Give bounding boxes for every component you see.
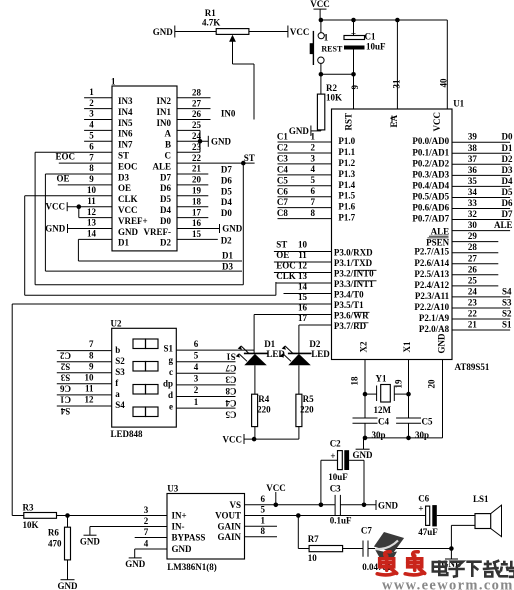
U1 pin 20 wire GND (442, 360, 444, 438)
U1 pin 34 wire (452, 196, 510, 198)
U1 pin 12 wire EOC (274, 272, 332, 274)
power label GND at R1 (174, 26, 176, 38)
svg-text:D0: D0 (502, 132, 513, 142)
svg-text:6: 6 (194, 339, 199, 349)
svg-text:S3: S3 (60, 373, 70, 383)
U1 pin 27 wire (452, 263, 498, 265)
svg-text:VCC: VCC (310, 0, 330, 9)
wire C6 to speaker (437, 515, 475, 517)
svg-text:C6: C6 (277, 186, 288, 196)
svg-text:LED: LED (311, 349, 330, 359)
wire X1 down to C5 (408, 394, 410, 418)
svg-text:ST: ST (118, 151, 129, 161)
U1 pin 8 wire (278, 218, 332, 220)
svg-text:14: 14 (298, 282, 308, 292)
svg-text:3: 3 (194, 374, 199, 384)
LED D1 arrows (241, 346, 249, 354)
svg-text:D1: D1 (222, 251, 233, 261)
svg-text:10: 10 (298, 240, 308, 250)
svg-text:P2.5/A13: P2.5/A13 (414, 269, 449, 279)
ADC pin 4 wire (84, 129, 112, 131)
svg-text:S3: S3 (502, 297, 512, 307)
U1 pin 14 wire (284, 293, 332, 295)
ADC pin 10 wire CLK (25, 195, 112, 197)
svg-text:IN4: IN4 (118, 107, 133, 117)
svg-text:6: 6 (89, 141, 94, 151)
U3 pin 4 wire GND (135, 548, 167, 550)
svg-text:e: e (169, 402, 173, 412)
svg-text:11: 11 (85, 384, 94, 394)
svg-text:8: 8 (311, 208, 316, 218)
ADC pin 19 wire D5 (177, 195, 208, 197)
svg-text:P2.6/A14: P2.6/A14 (414, 258, 449, 268)
svg-text:12: 12 (85, 395, 95, 405)
U3 pin 8 wire GAIN (245, 536, 278, 538)
svg-text:20: 20 (427, 379, 437, 389)
svg-text:5: 5 (311, 175, 316, 185)
svg-text:A: A (165, 129, 172, 139)
wire CLK net bottom run (25, 294, 276, 296)
node reset at S1 (319, 72, 324, 77)
svg-text:C2: C2 (277, 143, 288, 153)
wire X2 down to C4 (364, 394, 366, 418)
svg-text:D4: D4 (160, 205, 171, 215)
svg-text:dp: dp (163, 378, 173, 388)
svg-text:12M: 12M (374, 405, 392, 415)
U2 pin wire (57, 394, 112, 396)
svg-text:www.eeworm.com: www.eeworm.com (382, 578, 514, 590)
svg-text:D7: D7 (502, 209, 513, 219)
svg-text:5: 5 (261, 505, 266, 515)
U1 pin 13 wire CLK (276, 282, 332, 284)
wire R2 bottom to GND (320, 130, 322, 131)
svg-text:C1: C1 (365, 31, 376, 41)
svg-text:GND: GND (353, 450, 374, 460)
U3 pin 1 wire GAIN (245, 525, 278, 527)
microcontroller U1 AT89S51 body (332, 109, 453, 360)
svg-text:S4: S4 (502, 286, 512, 296)
ADC pin 28 wire (177, 97, 211, 99)
ground symbol at IN- (84, 534, 97, 536)
wire R6 to ground (67, 560, 69, 580)
svg-text:21: 21 (192, 164, 202, 174)
svg-text:1: 1 (111, 77, 116, 87)
svg-text:38: 38 (468, 143, 478, 153)
U1 pin 6 wire (278, 196, 332, 198)
svg-text:P2.7/A15: P2.7/A15 (414, 247, 449, 257)
svg-text:CLK: CLK (276, 271, 296, 281)
node VCC at VS (274, 503, 279, 508)
svg-text:10: 10 (85, 372, 95, 382)
svg-text:OE: OE (57, 174, 70, 184)
svg-text:220: 220 (300, 404, 314, 414)
power label VCC at LED bus (243, 434, 245, 444)
svg-text:GND: GND (118, 227, 139, 237)
U1 pin 21 wire S1 (452, 329, 510, 331)
svg-text:32: 32 (468, 209, 478, 219)
svg-text:4: 4 (311, 164, 316, 174)
svg-text:IN-: IN- (172, 522, 185, 532)
svg-text:C5: C5 (422, 417, 433, 427)
svg-text:Y1: Y1 (376, 374, 387, 384)
svg-text:12: 12 (87, 207, 97, 217)
svg-text:5: 5 (89, 131, 94, 141)
wire pin4 to ground (134, 549, 136, 558)
svg-text:VREF+: VREF+ (118, 216, 148, 226)
wire RST to U1 pin9 (353, 74, 355, 109)
svg-text:D1: D1 (118, 238, 129, 248)
U2 pin wire (57, 372, 112, 374)
wire from R1 wiper to IN0 (253, 64, 255, 120)
svg-text:GND: GND (125, 559, 146, 569)
svg-text:C4: C4 (225, 398, 236, 408)
svg-text:D1: D1 (264, 339, 275, 349)
svg-text:22: 22 (468, 309, 478, 319)
ground symbol at U3 pin4 (129, 557, 142, 559)
U1 pin 15 wire to R3 (audio line) (12, 303, 331, 305)
wire C4 bottom (364, 423, 366, 438)
U2 right pin 1 wire (176, 407, 235, 409)
svg-text:22: 22 (192, 153, 202, 163)
svg-text:6: 6 (261, 494, 266, 504)
svg-text:12: 12 (298, 261, 308, 271)
svg-text:C7: C7 (361, 526, 372, 536)
svg-text:20: 20 (192, 175, 202, 185)
svg-text:10K: 10K (326, 93, 342, 103)
svg-text:10uF: 10uF (328, 472, 348, 482)
wire IN- to ground (89, 527, 91, 536)
wire R1 right lead (249, 31, 288, 33)
svg-text:24: 24 (468, 286, 478, 296)
svg-text:1: 1 (261, 516, 266, 526)
svg-text:IN0: IN0 (221, 108, 236, 118)
svg-text:34: 34 (468, 187, 478, 197)
node at ABC tie (198, 139, 203, 144)
svg-text:23: 23 (468, 297, 478, 307)
svg-text:IN6: IN6 (118, 129, 133, 139)
svg-text:GAIN: GAIN (217, 532, 241, 542)
svg-text:C6: C6 (418, 494, 429, 504)
ADC pin 23 wire (177, 151, 200, 153)
U2 right pin 5 wire (176, 361, 235, 363)
svg-text:AT89S51: AT89S51 (455, 362, 490, 372)
wire VCC top rail (320, 19, 447, 21)
svg-text:26: 26 (468, 264, 478, 274)
svg-text:RST: RST (344, 113, 354, 131)
wire R5 to VCC bus (298, 427, 300, 440)
svg-text:VCC: VCC (266, 483, 286, 493)
node VCC rail at S1 (319, 18, 324, 23)
svg-text:GND: GND (211, 136, 232, 146)
svg-text:VOUT: VOUT (215, 511, 241, 521)
node VOUT to R7 (296, 513, 301, 518)
svg-text:11: 11 (298, 250, 307, 260)
ADC pin 16 wire (177, 228, 220, 230)
ADC pin 20 wire D6 (177, 184, 208, 186)
svg-text:VCC: VCC (432, 112, 442, 132)
svg-text:D6: D6 (502, 198, 513, 208)
svg-text:D2: D2 (160, 238, 171, 248)
wire D1 net bottom run (78, 260, 242, 262)
svg-text:+: + (418, 504, 423, 514)
svg-text:10uF: 10uF (366, 41, 386, 51)
U3 pin 6 wire VS (245, 504, 336, 506)
svg-text:2: 2 (194, 385, 199, 395)
svg-text:21: 21 (468, 320, 478, 330)
svg-text:C2: C2 (60, 350, 71, 360)
svg-text:P0.3/AD3: P0.3/AD3 (412, 169, 449, 179)
svg-text:30p: 30p (415, 430, 429, 440)
ADC pin 5 wire (84, 140, 112, 142)
wire C7 to speaker return (368, 548, 451, 550)
svg-text:EA: EA (389, 114, 399, 127)
ADC pin 9 wire OE (58, 184, 112, 186)
svg-text:GND: GND (80, 537, 101, 547)
svg-text:C5: C5 (277, 175, 288, 185)
svg-text:9: 9 (89, 174, 94, 184)
svg-text:EOC: EOC (118, 161, 138, 171)
wire D2 LED drop (298, 325, 300, 353)
node VCC rail at C1 (351, 18, 356, 23)
ADC pin 24 wire (177, 140, 208, 142)
power label GND at R2 (310, 126, 312, 137)
U1 pin 26 wire (452, 274, 498, 276)
U1 pin 17 wire to LED D2 (299, 324, 332, 326)
amplifier U3 LM386 body (167, 494, 245, 560)
svg-text:C8: C8 (277, 208, 288, 218)
svg-text:B: B (165, 140, 171, 150)
svg-text:VS: VS (229, 500, 241, 510)
node C2 left (319, 503, 324, 508)
wire VCC to U1 pin40 (446, 20, 448, 109)
U1 pin 11 wire OE (274, 261, 332, 263)
svg-text:15: 15 (192, 229, 202, 239)
svg-text:IN+: IN+ (172, 511, 187, 521)
svg-text:C5: C5 (225, 409, 236, 419)
U1 pin 5 wire (278, 185, 332, 187)
svg-text:OE: OE (118, 183, 131, 193)
svg-text:R4: R4 (258, 394, 269, 404)
svg-text:C8: C8 (225, 386, 236, 396)
resistor R5 220 (296, 394, 302, 426)
capacitor C5 30p (396, 417, 421, 419)
wire left rail down to R3 (11, 304, 13, 516)
svg-text:BYPASS: BYPASS (172, 533, 206, 543)
U1 right pins 39-32 wires D0-D7 (452, 141, 510, 143)
svg-text:LS1: LS1 (473, 494, 489, 504)
wire crystal ground bus (364, 437, 443, 439)
ADC pin 7 wire EOC (59, 162, 112, 164)
svg-text:19: 19 (192, 186, 202, 196)
svg-text:+: + (330, 451, 335, 461)
svg-text:7: 7 (89, 339, 94, 349)
svg-text:IN5: IN5 (118, 118, 133, 128)
svg-text:IN3: IN3 (118, 96, 133, 106)
node C4 gnd (363, 436, 368, 441)
wire C5 bottom (408, 423, 410, 438)
svg-text:GND: GND (45, 224, 66, 234)
U1 pin 7 wire (278, 207, 332, 209)
svg-text:39: 39 (468, 132, 478, 142)
U1 pin 36 wire (452, 174, 510, 176)
U1 pin 32 wire (452, 219, 510, 221)
ground symbol at crystal (363, 438, 365, 449)
wire VOUT drop to R7 (297, 516, 299, 549)
svg-text:ALE: ALE (152, 161, 171, 171)
svg-text:36: 36 (468, 165, 478, 175)
resistor R7 10 (298, 548, 309, 550)
svg-text:D2: D2 (309, 339, 320, 349)
svg-text:D1: D1 (502, 143, 513, 153)
svg-text:10: 10 (87, 185, 97, 195)
node speaker return (449, 546, 454, 551)
svg-text:D0: D0 (160, 216, 171, 226)
resistor R3 10K (12, 515, 24, 517)
svg-text:P0.1/AD1: P0.1/AD1 (412, 147, 449, 157)
wire C1 top (353, 20, 355, 36)
svg-text:3: 3 (144, 505, 149, 515)
svg-text:P0.5/AD5: P0.5/AD5 (412, 191, 449, 201)
svg-text:ST: ST (276, 240, 287, 250)
svg-text:30: 30 (468, 220, 478, 230)
svg-text:U3: U3 (167, 484, 178, 494)
svg-text:P0.0/AD0: P0.0/AD0 (412, 136, 449, 146)
svg-text:P1.2: P1.2 (338, 158, 355, 168)
ADC pin 26 wire IN0 (177, 119, 211, 121)
svg-text:2: 2 (89, 98, 94, 108)
svg-text:P0.2/AD2: P0.2/AD2 (412, 158, 449, 168)
svg-text:P0.7/AD7: P0.7/AD7 (412, 214, 449, 224)
wire speaker return horizontal (451, 524, 475, 526)
svg-text:D3: D3 (222, 262, 233, 272)
power label VCC at R1 (287, 26, 289, 38)
U1 pin 29 wire (452, 241, 498, 243)
svg-text:GND: GND (437, 333, 447, 354)
U1 pin 24 wire S4 (452, 296, 510, 298)
wire R1 left lead (175, 31, 216, 33)
resistor R1 4.7K potentiometer (216, 29, 249, 35)
svg-text:REST: REST (321, 44, 343, 53)
svg-text:C1: C1 (277, 132, 288, 142)
svg-text:P1.4: P1.4 (338, 180, 355, 190)
svg-text:5: 5 (194, 350, 199, 360)
svg-text:D6: D6 (221, 175, 232, 185)
svg-text:P0.6/AD6: P0.6/AD6 (412, 203, 449, 213)
svg-text:25: 25 (192, 120, 202, 130)
svg-text:C1: C1 (60, 395, 71, 405)
svg-text:19: 19 (394, 379, 404, 389)
svg-text:11: 11 (87, 196, 96, 206)
U2 digit segments (133, 339, 146, 349)
svg-text:C: C (165, 151, 172, 161)
wire R4 to VCC bus (254, 427, 256, 440)
svg-text:D7: D7 (160, 172, 171, 182)
svg-text:3: 3 (311, 153, 316, 163)
svg-text:P2.3/A11: P2.3/A11 (415, 291, 450, 301)
ADC pin 3 wire (84, 119, 112, 121)
svg-text:6: 6 (311, 186, 316, 196)
svg-text:P2.4/A12: P2.4/A12 (414, 280, 449, 290)
svg-text:S2: S2 (115, 356, 125, 366)
svg-text:S3: S3 (115, 367, 125, 377)
svg-text:18: 18 (350, 376, 360, 386)
svg-text:c: c (169, 367, 173, 377)
svg-text:D2: D2 (221, 236, 232, 246)
svg-text:R6: R6 (48, 527, 59, 537)
U2 pin wire (57, 383, 112, 385)
node X2 (363, 392, 368, 397)
svg-text:8: 8 (89, 350, 94, 360)
svg-text:GND: GND (58, 581, 79, 590)
svg-text:d: d (168, 390, 173, 400)
wire wiper elbow (233, 63, 255, 65)
svg-text:25: 25 (468, 275, 478, 285)
svg-text:ST: ST (244, 153, 255, 163)
svg-text:GAIN: GAIN (217, 521, 241, 531)
U1 pin 28 wire (452, 252, 498, 254)
ADC pin 21 wire D7 (177, 173, 208, 175)
svg-text:U1: U1 (453, 99, 464, 109)
svg-text:4: 4 (194, 362, 199, 372)
svg-text:17: 17 (192, 207, 202, 217)
svg-text:13: 13 (87, 218, 97, 228)
svg-text:EOC: EOC (276, 261, 296, 271)
node ST junction (241, 161, 246, 166)
svg-text:R1: R1 (205, 8, 216, 18)
svg-text:X2: X2 (359, 341, 369, 352)
svg-text:27: 27 (192, 98, 202, 108)
power label VCC at ADC pin11 (66, 202, 68, 211)
R1 wiper arrow (229, 35, 236, 42)
watermark gray site name dianzi xiazaizhan (433, 560, 514, 577)
wire ST rail down (242, 163, 244, 285)
svg-text:D4: D4 (502, 176, 513, 186)
svg-text:LM386N1(8): LM386N1(8) (167, 562, 217, 572)
wire LED VCC bus (244, 438, 299, 440)
svg-text:VCC: VCC (223, 434, 243, 444)
svg-text:220: 220 (257, 404, 271, 414)
wire D1 net vertical (77, 239, 79, 261)
svg-text:S2: S2 (60, 362, 70, 372)
svg-text:15: 15 (298, 292, 308, 302)
U2 pin wire (57, 405, 112, 407)
svg-text:26: 26 (192, 109, 202, 119)
svg-text:C7: C7 (277, 197, 288, 207)
ADC chip body (ADC0809) (112, 86, 177, 251)
svg-text:P0.4/AD4: P0.4/AD4 (412, 180, 449, 190)
ground symbol at R6 (61, 579, 75, 581)
U1 pin 3 wire (278, 163, 332, 165)
svg-text:IN1: IN1 (156, 107, 171, 117)
svg-text:9: 9 (89, 361, 94, 371)
U1 pin 35 wire (452, 185, 510, 187)
ADC pin 11 wire VCC (67, 206, 112, 208)
wire D3 net bottom run (45, 270, 242, 272)
U1 pin 19 wire X1 (408, 360, 410, 395)
svg-text:16: 16 (298, 303, 308, 313)
U3 pin 5 wire VOUT (245, 515, 426, 517)
svg-text:P1.5: P1.5 (338, 191, 355, 201)
svg-text:ALE: ALE (494, 220, 513, 230)
svg-text:P1.7: P1.7 (338, 213, 355, 223)
svg-text:S2: S2 (502, 309, 512, 319)
svg-text:LED848: LED848 (111, 429, 144, 439)
svg-text:D5: D5 (160, 194, 171, 204)
U1 pin 2 wire (278, 152, 332, 154)
svg-text:16: 16 (192, 218, 202, 228)
node R3-R6 (65, 513, 70, 518)
svg-text:7: 7 (144, 527, 149, 537)
